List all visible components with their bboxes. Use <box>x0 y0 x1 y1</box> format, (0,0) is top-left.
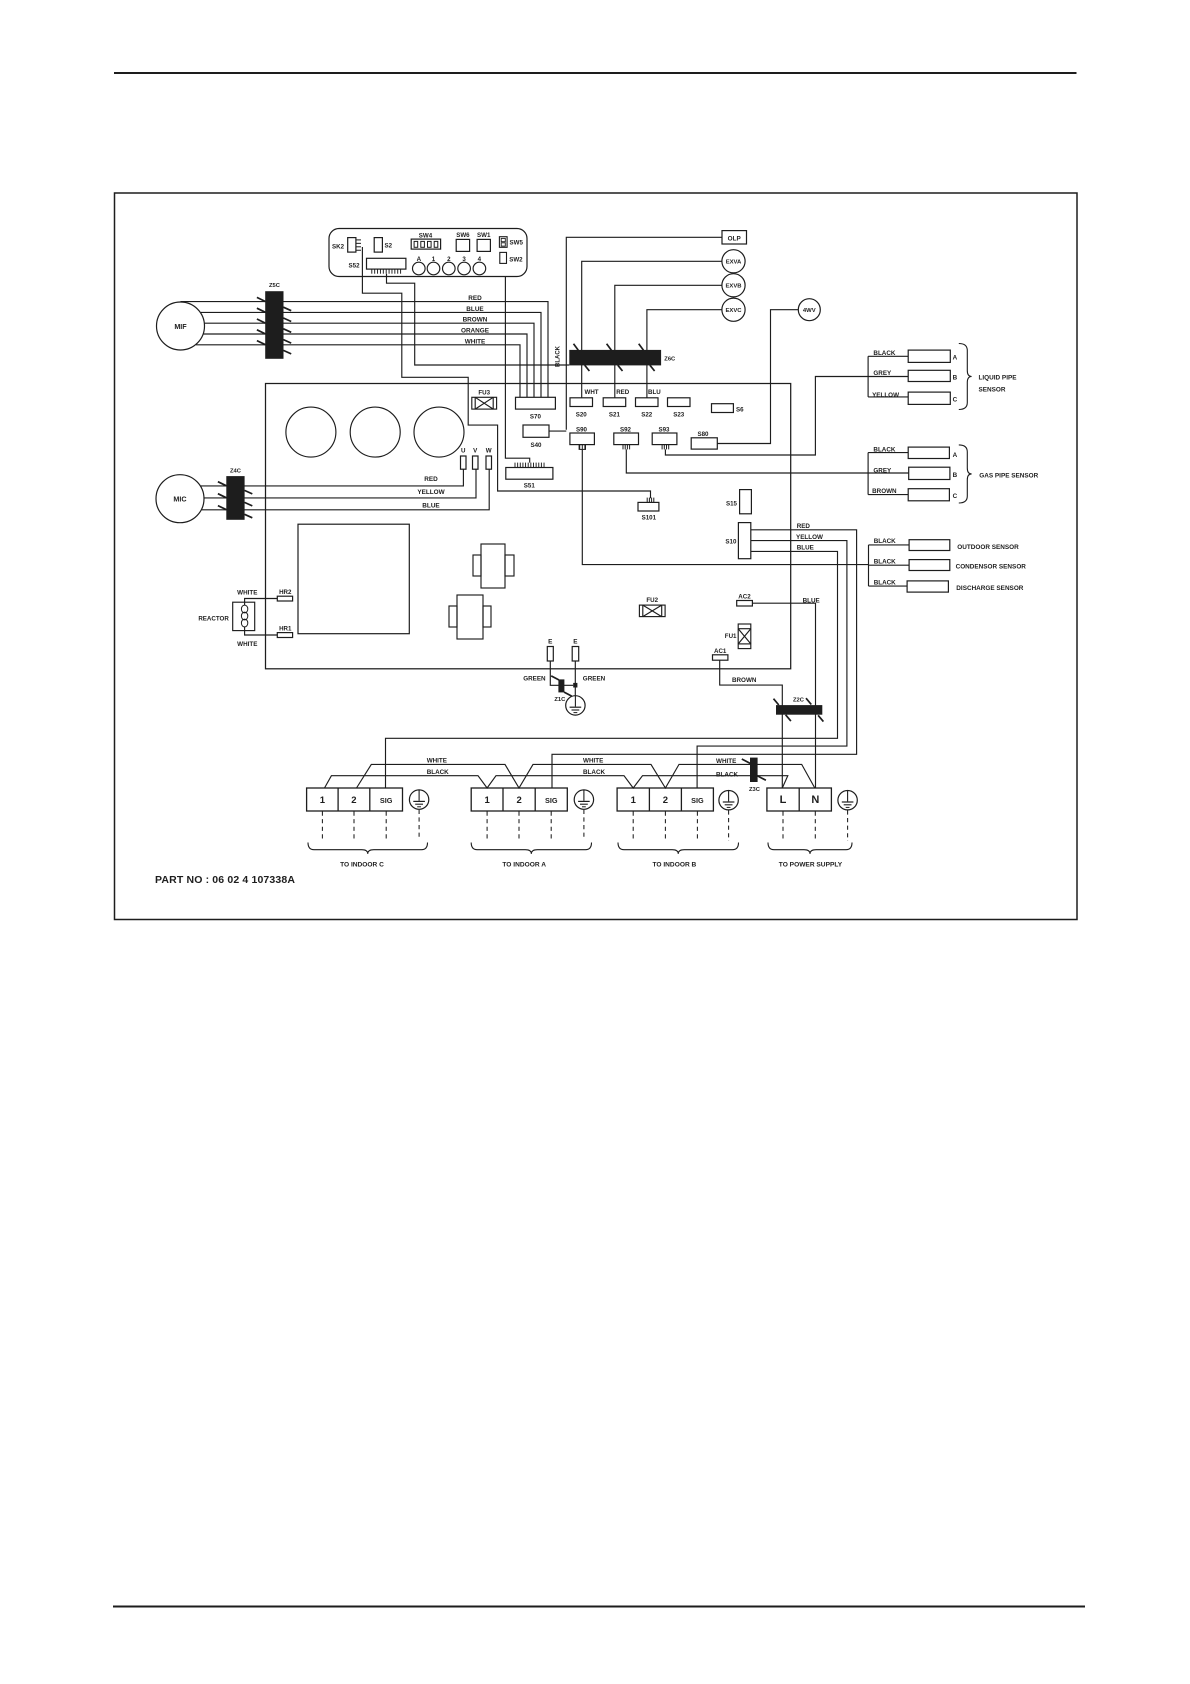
wire MIF BROWN <box>205 323 534 397</box>
svg-text:AC2: AC2 <box>738 594 751 601</box>
svg-text:OLP: OLP <box>728 235 742 242</box>
svg-text:BLUE: BLUE <box>797 545 814 552</box>
svg-text:4: 4 <box>478 256 482 263</box>
diagram border <box>115 193 1078 920</box>
terminal block indoor C <box>307 788 403 811</box>
svg-text:B: B <box>953 374 958 381</box>
svg-text:BLUE: BLUE <box>422 503 440 510</box>
svg-text:BLUE: BLUE <box>466 306 484 313</box>
brace indoor B <box>618 843 739 854</box>
svg-text:A: A <box>417 256 422 263</box>
svg-text:MIF: MIF <box>174 322 187 331</box>
liquid pipe sensor pin C <box>908 392 950 404</box>
outdoor sensor stub <box>869 544 910 546</box>
connector S90 <box>570 433 595 449</box>
svg-text:U: U <box>461 448 466 455</box>
svg-text:WHITE: WHITE <box>583 757 603 764</box>
svg-text:WHITE: WHITE <box>716 758 736 765</box>
LED A <box>413 262 426 275</box>
svg-text:BLACK: BLACK <box>716 772 738 779</box>
svg-text:S80: S80 <box>697 431 709 438</box>
svg-text:1: 1 <box>631 795 637 806</box>
svg-text:SW4: SW4 <box>419 232 433 239</box>
ferrite core Z3C <box>750 758 758 782</box>
svg-text:MIC: MIC <box>173 495 186 504</box>
svg-text:WHITE: WHITE <box>427 757 447 764</box>
wire MIC BLUE <box>202 469 489 510</box>
svg-text:RED: RED <box>797 523 811 530</box>
svg-text:Z5C: Z5C <box>269 283 281 289</box>
svg-text:HR1: HR1 <box>279 625 292 632</box>
wire MIF WHITE <box>196 345 520 398</box>
svg-text:YELLOW: YELLOW <box>872 392 899 399</box>
wire S52 to ferrite Z6C <box>387 274 570 365</box>
connector SK2 <box>348 238 361 253</box>
dashed lead earth power <box>847 810 849 841</box>
svg-text:4WV: 4WV <box>803 308 816 314</box>
wire reactor to HR1 <box>245 627 278 635</box>
svg-text:BLACK: BLACK <box>583 769 605 776</box>
DIP switch SW4 <box>411 239 440 249</box>
svg-text:OUTDOOR SENSOR: OUTDOOR SENSOR <box>957 544 1019 551</box>
svg-text:BLACK: BLACK <box>556 345 562 367</box>
main PCB outline <box>266 384 791 669</box>
LED 4 <box>473 262 486 275</box>
svg-text:TO INDOOR C: TO INDOOR C <box>340 862 384 869</box>
svg-text:S22: S22 <box>641 411 653 418</box>
connector S92 <box>614 433 639 449</box>
connector S20 <box>570 398 593 407</box>
discharge sensor stub <box>869 585 908 587</box>
wire S10 BLUE to SIG C <box>386 551 838 788</box>
svg-text:E: E <box>573 639 578 646</box>
dashed lead 2B <box>664 812 666 842</box>
liquid pipe sensor pin A <box>908 350 950 362</box>
outdoor sensor <box>909 540 950 551</box>
svg-text:WHITE: WHITE <box>237 590 257 597</box>
expansion valve EXVC <box>722 298 745 321</box>
transformer T1 <box>473 544 514 588</box>
svg-text:Z3C: Z3C <box>749 787 761 793</box>
wire OLP to S40 <box>566 237 722 429</box>
fan motor MIF <box>157 302 205 350</box>
wire reactor to HR2 <box>245 599 278 606</box>
svg-text:BLACK: BLACK <box>874 580 896 587</box>
svg-text:C: C <box>953 396 958 403</box>
earth terminal A <box>574 790 593 809</box>
svg-text:LIQUID PIPE: LIQUID PIPE <box>979 375 1018 382</box>
svg-text:S6: S6 <box>736 406 744 413</box>
terminal block indoor A <box>471 788 567 811</box>
svg-text:BLUE: BLUE <box>803 597 820 604</box>
dashed lead earth B <box>728 810 730 841</box>
liquid sensor stub A <box>868 355 908 357</box>
dashed lead 1C <box>321 812 323 839</box>
wire BLACK bus <box>325 776 788 788</box>
svg-text:ORANGE: ORANGE <box>461 328 490 335</box>
expansion valve EXVA <box>722 250 745 273</box>
overload protector OLP <box>722 231 747 244</box>
LED 1 <box>427 262 440 275</box>
ferrite core Z2C power <box>776 705 822 715</box>
condensor sensor <box>909 560 950 571</box>
ferrite core Z1C <box>558 679 564 692</box>
svg-text:SW6: SW6 <box>456 232 470 239</box>
svg-text:S40: S40 <box>530 442 542 449</box>
component S2 <box>374 238 382 253</box>
dashed lead earth C <box>418 810 420 839</box>
gas sensor stub A <box>868 452 908 454</box>
terminal block power <box>767 788 832 811</box>
svg-text:SW5: SW5 <box>510 239 524 246</box>
svg-text:BROWN: BROWN <box>463 317 488 324</box>
svg-text:PART NO : 06 02 4 107338A: PART NO : 06 02 4 107338A <box>155 874 295 886</box>
wire MIF ORANGE <box>204 334 527 397</box>
brace power supply <box>768 843 852 854</box>
svg-text:S20: S20 <box>576 411 588 418</box>
connector S51 <box>506 463 553 480</box>
svg-text:DISCHARGE SENSOR: DISCHARGE SENSOR <box>956 585 1023 592</box>
connector S10 <box>738 523 750 559</box>
svg-text:N: N <box>811 794 819 806</box>
gas sensor bus <box>867 453 869 495</box>
svg-text:BROWN: BROWN <box>872 488 897 495</box>
wire WHITE bus <box>357 764 815 788</box>
ferrite core Z6C <box>569 350 661 366</box>
svg-text:GREY: GREY <box>873 467 892 474</box>
wire MIF RED <box>181 302 549 398</box>
svg-text:FU2: FU2 <box>646 597 658 604</box>
svg-text:WHT: WHT <box>585 389 599 396</box>
reactor <box>233 602 255 630</box>
terminal HR2 <box>277 596 292 601</box>
button SW1 <box>477 239 490 251</box>
terminal AC2 <box>737 601 753 607</box>
wire AC2 BLUE to N <box>752 603 815 788</box>
terminal E2 <box>572 647 579 662</box>
svg-text:1: 1 <box>320 795 326 806</box>
connector S70 <box>516 397 556 409</box>
connector S40 <box>523 425 549 437</box>
svg-text:C: C <box>953 493 958 500</box>
dashed lead 2C <box>353 812 355 839</box>
wire MIC RED <box>201 469 464 486</box>
svg-text:CONDENSOR SENSOR: CONDENSOR SENSOR <box>956 564 1027 571</box>
svg-text:SIG: SIG <box>691 796 704 805</box>
svg-text:SW2: SW2 <box>509 257 523 264</box>
wire display board to S51 <box>505 277 529 463</box>
liquid sensor bus <box>867 356 869 397</box>
wire 4WV to S80 <box>717 310 798 444</box>
top rule <box>114 72 1077 74</box>
discharge sensor <box>907 581 948 592</box>
wire S90 to sensors <box>582 449 868 564</box>
expansion valve EXVB <box>722 274 745 297</box>
svg-text:FU3: FU3 <box>478 390 490 397</box>
svg-text:RED: RED <box>424 476 438 483</box>
liquid sensor brace <box>959 344 972 410</box>
transformer T2 <box>449 595 491 639</box>
svg-text:Z4C: Z4C <box>230 468 242 474</box>
wire EXVA to S20 <box>582 261 722 397</box>
connector S21 <box>603 398 626 407</box>
svg-text:GREEN: GREEN <box>583 676 606 683</box>
connector S22 <box>636 398 659 407</box>
wire S10 YELLOW to SIG B <box>697 541 847 788</box>
connector S15 <box>740 490 752 514</box>
svg-text:YELLOW: YELLOW <box>796 534 823 541</box>
button SW6 <box>456 239 469 251</box>
svg-text:WHITE: WHITE <box>237 641 257 648</box>
liquid sensor stub C <box>868 396 908 398</box>
svg-text:SK2: SK2 <box>332 243 345 250</box>
svg-text:S21: S21 <box>609 411 621 418</box>
svg-text:WHITE: WHITE <box>465 338 486 345</box>
dashed lead SIGA <box>550 812 552 839</box>
svg-text:SIG: SIG <box>380 796 393 805</box>
wire S92 to gas pipe sensor <box>626 449 908 473</box>
dashed lead earth A <box>583 810 585 839</box>
wire S10 RED to SIG A <box>552 530 857 788</box>
svg-text:BLU: BLU <box>648 389 661 396</box>
bottom rule <box>113 1605 1085 1607</box>
svg-text:FU1: FU1 <box>725 633 737 640</box>
wire S93 to liquid pipe sensor <box>665 377 908 456</box>
dashed lead 1A <box>486 812 488 839</box>
gas sensor stub C <box>868 494 908 496</box>
terminal W <box>486 456 492 469</box>
liquid pipe sensor pin B <box>908 370 950 381</box>
dashed lead 2A <box>518 812 520 839</box>
svg-text:RED: RED <box>468 295 482 302</box>
earth terminal C <box>409 790 428 809</box>
svg-text:BLACK: BLACK <box>874 559 896 566</box>
connector S101 <box>638 498 659 511</box>
terminal HR1 <box>277 633 292 638</box>
terminal block indoor B <box>617 788 713 811</box>
terminal E1 <box>547 647 553 662</box>
compressor motor MIC <box>156 475 204 523</box>
svg-text:SW1: SW1 <box>477 232 491 239</box>
gas sensor brace <box>959 445 972 503</box>
svg-text:L: L <box>780 794 787 806</box>
svg-text:BLACK: BLACK <box>427 769 449 776</box>
gas pipe sensor pin B <box>909 467 950 479</box>
svg-text:EXVC: EXVC <box>725 308 742 314</box>
svg-text:1: 1 <box>484 795 490 806</box>
svg-text:2: 2 <box>663 795 668 806</box>
svg-text:S101: S101 <box>642 515 657 522</box>
gas pipe sensor pin C <box>908 489 949 501</box>
svg-text:BLACK: BLACK <box>874 538 896 545</box>
svg-text:A: A <box>953 354 958 361</box>
svg-text:3: 3 <box>462 256 466 263</box>
svg-text:YELLOW: YELLOW <box>417 489 445 496</box>
wire SK2 to S101 <box>362 247 650 498</box>
svg-text:TO INDOOR A: TO INDOOR A <box>502 862 546 869</box>
terminal AC1 <box>713 655 728 660</box>
capacitor circle 1 <box>286 407 336 457</box>
dashed lead L <box>782 812 784 842</box>
svg-text:RED: RED <box>616 389 630 396</box>
svg-text:GREY: GREY <box>873 370 892 377</box>
svg-text:SIG: SIG <box>545 796 558 805</box>
svg-text:S51: S51 <box>524 483 536 490</box>
svg-text:Z1C: Z1C <box>554 697 566 703</box>
switch SW2 <box>500 252 507 263</box>
svg-text:2: 2 <box>351 795 356 806</box>
connector S52 <box>367 258 406 273</box>
svg-text:E: E <box>548 639 553 646</box>
connector S80 <box>691 438 717 449</box>
dashed lead N <box>814 812 816 842</box>
LED 3 <box>458 262 471 275</box>
heatsink block <box>298 524 409 634</box>
connector S23 <box>668 398 691 407</box>
sensor bus vertical <box>868 545 870 586</box>
brace indoor A <box>471 843 591 854</box>
svg-text:2: 2 <box>516 795 521 806</box>
ferrite core Z5C <box>265 291 283 359</box>
wire E1 GREEN <box>550 661 573 685</box>
earth symbol main <box>566 696 585 715</box>
svg-text:S15: S15 <box>726 500 738 507</box>
wire AC1 BROWN to L <box>720 660 783 788</box>
svg-text:S52: S52 <box>349 263 361 270</box>
condensor sensor stub <box>869 564 910 566</box>
svg-text:EXVB: EXVB <box>725 284 741 290</box>
wire MIC YELLOW <box>204 469 476 498</box>
wire S40 to OLP <box>549 430 566 432</box>
svg-text:AC1: AC1 <box>714 648 727 655</box>
svg-text:GREEN: GREEN <box>523 676 546 683</box>
LED 2 <box>443 262 456 275</box>
svg-text:B: B <box>953 472 958 479</box>
wire MIF BLUE <box>201 312 541 397</box>
dashed lead 1B <box>632 812 634 842</box>
svg-text:TO INDOOR B: TO INDOOR B <box>652 862 696 869</box>
svg-text:REACTOR: REACTOR <box>198 616 229 623</box>
svg-text:S92: S92 <box>620 426 632 433</box>
svg-text:GAS PIPE SENSOR: GAS PIPE SENSOR <box>979 473 1038 480</box>
svg-text:HR2: HR2 <box>279 589 292 596</box>
svg-text:EXVA: EXVA <box>726 260 742 266</box>
earth terminal B <box>719 791 738 810</box>
svg-text:TO POWER SUPPLY: TO POWER SUPPLY <box>779 862 843 869</box>
display board outline <box>329 229 527 277</box>
4-way valve 4WV <box>798 299 820 321</box>
wire E2 GREEN to earth <box>574 661 576 696</box>
capacitor circle 3 <box>414 407 464 457</box>
svg-text:SENSOR: SENSOR <box>979 386 1006 393</box>
svg-text:Z6C: Z6C <box>664 357 676 363</box>
earth terminal power <box>838 791 857 810</box>
capacitor circle 2 <box>350 407 400 457</box>
svg-text:S2: S2 <box>385 243 393 250</box>
svg-text:BLACK: BLACK <box>873 350 895 357</box>
svg-text:S93: S93 <box>658 426 670 433</box>
junction dot <box>573 683 577 688</box>
svg-text:Z2C: Z2C <box>793 697 805 703</box>
wire EXVC to S22 <box>647 310 722 398</box>
ferrite core Z4C <box>226 476 244 520</box>
terminal V <box>473 456 479 469</box>
svg-text:S23: S23 <box>673 411 685 418</box>
svg-text:A: A <box>953 452 958 459</box>
svg-text:S90: S90 <box>576 426 588 433</box>
svg-text:BLACK: BLACK <box>873 447 895 454</box>
svg-text:S10: S10 <box>725 539 737 546</box>
brace indoor C <box>308 843 428 854</box>
svg-text:BROWN: BROWN <box>732 677 757 684</box>
wire EXVB to S21 <box>615 285 722 397</box>
connector S93 <box>652 433 677 449</box>
svg-text:V: V <box>473 448 478 455</box>
svg-text:W: W <box>486 448 492 455</box>
gas pipe sensor pin A <box>908 447 949 458</box>
connector S6 <box>712 404 734 413</box>
svg-text:2: 2 <box>447 256 451 263</box>
svg-text:S70: S70 <box>530 414 542 421</box>
terminal U <box>461 456 467 469</box>
dashed lead SIGB <box>696 812 698 842</box>
switch SW5 <box>499 237 507 248</box>
dashed lead SIGC <box>385 812 387 839</box>
svg-text:1: 1 <box>432 256 436 263</box>
